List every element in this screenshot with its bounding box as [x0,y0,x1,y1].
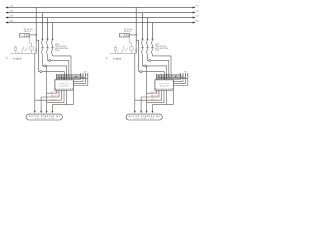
bus left arrows [5,6,8,23]
bus line N [9,22,193,24]
bus line L1 [9,7,193,9]
starter block 2 [106,8,188,121]
bus labels left [10,6,14,23]
starter block 1 [6,8,88,121]
bus line L3 [9,17,193,19]
bus right arrows [193,6,196,23]
bus line L2 [9,12,193,14]
bus labels right [195,6,199,23]
